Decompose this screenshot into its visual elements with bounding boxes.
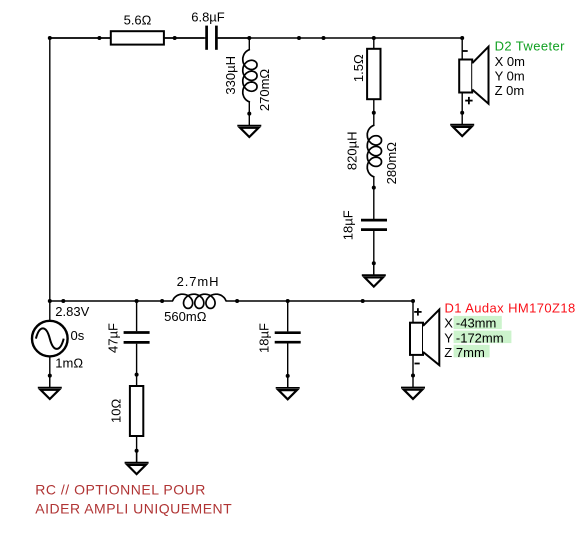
svg-text:Z 0m: Z 0m — [495, 83, 525, 98]
resistor R 5.6ohm — [50, 13, 204, 45]
D1 plus sign — [414, 311, 421, 313]
svg-text:D2 Tweeter: D2 Tweeter — [495, 39, 566, 54]
ground below 10ohm — [125, 451, 149, 474]
speaker D2 tweeter symbol — [459, 38, 488, 113]
junction dot 330uH bottom — [247, 112, 251, 116]
svg-text:2.7mH: 2.7mH — [177, 274, 220, 289]
D1 text block with highlights — [444, 301, 575, 361]
svg-text:820µH: 820µH — [345, 132, 360, 171]
capacitor C 6.8uF — [191, 10, 249, 50]
svg-text:18µF: 18µF — [341, 210, 356, 240]
wire bottom horizontal net — [50, 300, 173, 302]
wire left vertical from top net to source — [49, 38, 51, 321]
capacitor C 18uF (upper branch) — [341, 210, 387, 275]
D1 minus sign — [415, 363, 420, 365]
svg-text:560mΩ: 560mΩ — [164, 309, 207, 324]
capacitor C 47uF branch — [106, 301, 150, 386]
svg-text:5.6Ω: 5.6Ω — [124, 13, 152, 28]
junction dot between 47uF and 10ohm — [135, 373, 139, 377]
svg-text:1mΩ: 1mΩ — [55, 356, 83, 371]
junction dot below 18uF upper — [372, 261, 376, 265]
D2 plus sign — [465, 100, 472, 102]
speaker D1 woofer symbol — [410, 301, 439, 376]
resistor R 10ohm — [109, 386, 144, 463]
resistor R 1.5ohm vertical — [351, 38, 381, 125]
svg-text:280mΩ: 280mΩ — [384, 142, 399, 185]
junction dot below 18uF bottom — [286, 374, 290, 378]
svg-text:D1 Audax HM170Z18: D1 Audax HM170Z18 — [445, 301, 576, 316]
svg-text:10Ω: 10Ω — [109, 399, 124, 423]
junction dots bottom net — [48, 299, 52, 303]
junction dot below D2 — [460, 111, 464, 115]
svg-text:X 0m: X 0m — [495, 54, 525, 69]
svg-text:18µF: 18µF — [257, 323, 272, 353]
svg-text:6.8µF: 6.8µF — [191, 10, 225, 25]
ground below 18uF bottom — [276, 376, 300, 399]
junction dots top net — [48, 36, 52, 40]
junction dot below 820uH — [372, 186, 376, 190]
svg-text:Y 0m: Y 0m — [495, 69, 525, 84]
capacitor C 18uF (bottom branch) — [257, 301, 301, 388]
inductor L 2.7mH / 560mohm horizontal — [164, 274, 226, 324]
svg-text:330µH: 330µH — [223, 56, 238, 95]
svg-text:RC // OPTIONNEL POUR: RC // OPTIONNEL POUR — [35, 481, 206, 497]
svg-text:AIDER AMPLI UNIQUEMENT: AIDER AMPLI UNIQUEMENT — [35, 500, 232, 516]
junction dot below 1.5ohm — [372, 111, 376, 115]
junction dot below source — [48, 374, 52, 378]
ground below source — [38, 376, 62, 399]
wire top horizontal net — [50, 37, 207, 39]
svg-text:X -43mm: X -43mm — [444, 315, 496, 330]
junction dot below D1 — [411, 374, 415, 378]
svg-text:Y -172mm: Y -172mm — [444, 331, 503, 346]
D2 text block — [495, 39, 566, 99]
ground below 330uH — [237, 114, 261, 137]
ground below 18uF upper branch — [362, 263, 386, 286]
inductor L 820uH / 280mohm — [345, 125, 399, 219]
svg-text:47µF: 47µF — [106, 323, 121, 353]
junction dot below 10ohm — [135, 449, 139, 453]
D2 minus sign — [463, 50, 468, 52]
inductor L 330uH / 270mohm shunt branch — [223, 38, 272, 114]
svg-text:2.83V: 2.83V — [55, 304, 89, 319]
svg-text:1.5Ω: 1.5Ω — [351, 54, 366, 82]
ground below D1 — [401, 376, 425, 399]
svg-text:270mΩ: 270mΩ — [257, 69, 272, 112]
svg-text:Z 7mm: Z 7mm — [444, 345, 485, 360]
ground below D2 — [450, 113, 474, 136]
note text RC optional — [35, 481, 232, 516]
svg-text:0s: 0s — [71, 328, 85, 343]
voltage source VS 2.83V — [32, 304, 90, 388]
